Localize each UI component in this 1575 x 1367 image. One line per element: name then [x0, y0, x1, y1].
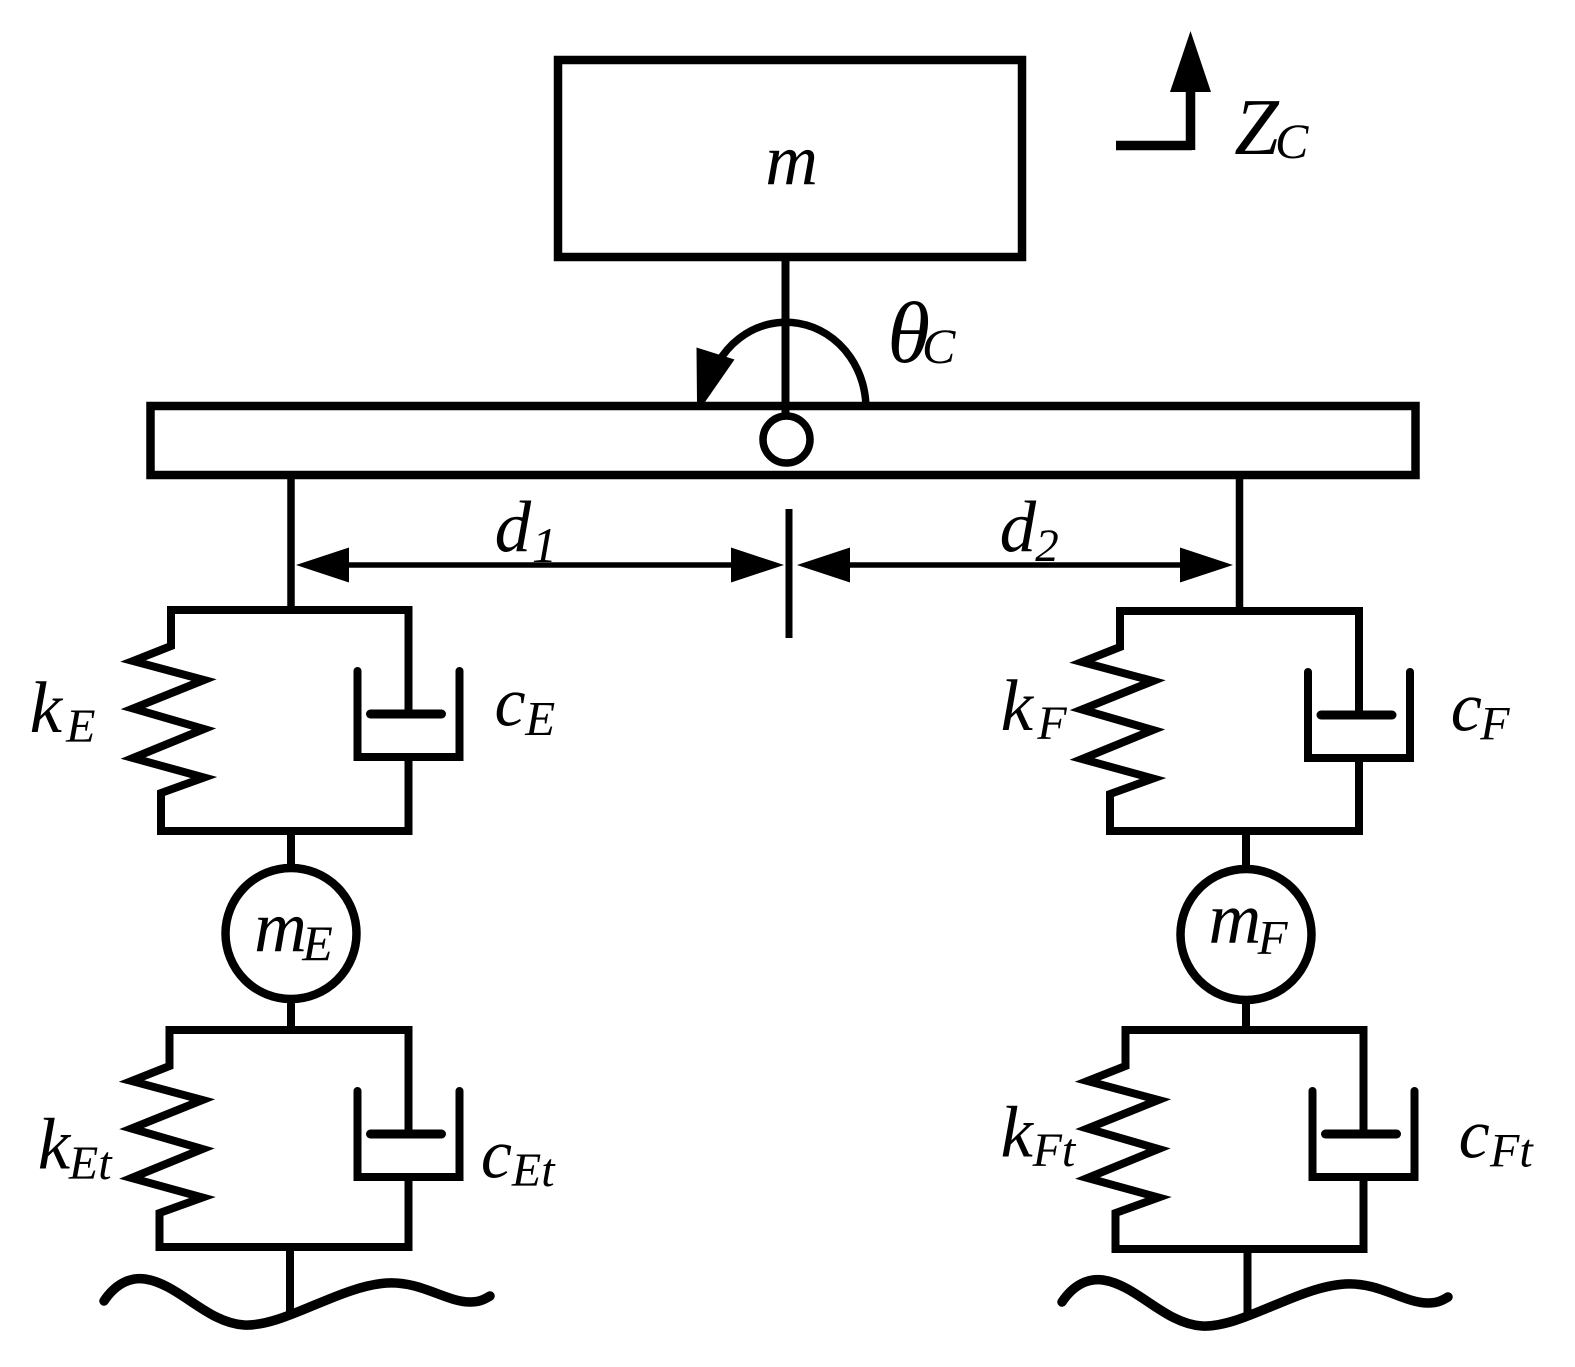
left hanger — [287, 475, 295, 610]
svg-text:Et: Et — [68, 1137, 113, 1190]
svg-text:d: d — [495, 487, 532, 568]
top bar kEt-cEt — [166, 1026, 413, 1034]
svg-text:c: c — [495, 665, 526, 742]
mass mE — [226, 868, 357, 999]
spring kE-cE — [133, 610, 204, 831]
center tick — [786, 509, 793, 638]
svg-text:Et: Et — [511, 1144, 556, 1197]
rod to mF — [1242, 831, 1250, 873]
svg-text:F: F — [1479, 698, 1510, 751]
svg-text:F: F — [1257, 910, 1289, 965]
damper cylinder kE-cE — [358, 671, 460, 757]
rod mass-beam — [782, 257, 790, 416]
rod to pivot — [782, 406, 790, 416]
rod to mE — [287, 831, 295, 872]
damper lower rod kF-cF — [1355, 758, 1363, 831]
svg-text:k: k — [1001, 1092, 1035, 1173]
svg-text:E: E — [524, 691, 555, 746]
damper rod kFt-cFt — [1360, 1030, 1368, 1136]
bottom bar kEt-cEt — [156, 1243, 413, 1251]
damper piston kEt-cEt — [371, 1130, 442, 1139]
svg-text:d: d — [1000, 487, 1037, 568]
beam — [151, 406, 1416, 475]
bottom bar kF-cF — [1106, 827, 1363, 835]
svg-text:Ft: Ft — [1489, 1125, 1534, 1178]
damper rod kF-cF — [1355, 611, 1363, 717]
svg-text:F: F — [1036, 697, 1067, 750]
pivot — [763, 416, 810, 463]
svg-text:c: c — [481, 1116, 512, 1193]
damper piston kE-cE — [371, 710, 442, 719]
svg-text:m: m — [765, 119, 818, 200]
damper lower rod kEt-cEt — [405, 1177, 413, 1247]
damper rod kEt-cEt — [405, 1030, 413, 1136]
bottom bar kFt-cFt — [1112, 1245, 1368, 1253]
damper cylinder kF-cF — [1308, 672, 1410, 758]
svg-text:1: 1 — [532, 517, 557, 573]
damper piston kFt-cFt — [1326, 1130, 1397, 1139]
svg-text:Z: Z — [1234, 84, 1280, 172]
svg-text:C: C — [922, 318, 956, 374]
svg-text:m: m — [254, 887, 307, 968]
d1 arrow — [340, 562, 740, 568]
spring kF-cF — [1082, 611, 1153, 831]
d2 arrow — [845, 562, 1190, 568]
top bar kE-cE — [167, 606, 413, 614]
damper lower rod kFt-cFt — [1360, 1177, 1368, 1249]
rod to road left — [286, 1247, 294, 1317]
svg-text:Ft: Ft — [1032, 1124, 1077, 1177]
road surface right — [1062, 1280, 1448, 1326]
damper lower rod kE-cE — [405, 757, 413, 831]
bottom bar kE-cE — [157, 827, 413, 835]
svg-text:2: 2 — [1035, 520, 1059, 572]
damper piston kF-cF — [1321, 711, 1392, 720]
svg-text:c: c — [1459, 1097, 1490, 1174]
spring kFt-cFt — [1088, 1030, 1159, 1249]
rod below mF — [1242, 998, 1250, 1030]
rod to road right — [1244, 1249, 1252, 1319]
damper cylinder kFt-cFt — [1313, 1091, 1415, 1177]
top bar kFt-cFt — [1122, 1026, 1368, 1034]
svg-text:E: E — [301, 915, 333, 971]
top bar kF-cF — [1116, 607, 1363, 615]
damper cylinder kEt-cEt — [358, 1091, 460, 1177]
svg-text:k: k — [30, 667, 64, 748]
svg-text:k: k — [38, 1104, 72, 1185]
rotation arc thetaC — [707, 322, 866, 420]
svg-text:k: k — [1001, 665, 1035, 746]
rod below mE — [287, 997, 295, 1030]
road surface left — [104, 1279, 490, 1325]
svg-text:m: m — [1209, 878, 1262, 959]
svg-text:C: C — [1275, 113, 1309, 169]
damper rod kE-cE — [405, 610, 413, 716]
spring kEt-cEt — [132, 1030, 203, 1247]
rotation arrowhead — [697, 348, 735, 403]
svg-text:c: c — [1451, 670, 1482, 747]
svg-text:E: E — [65, 700, 95, 753]
mass mF — [1181, 869, 1312, 1000]
Zc axis arrow — [1116, 88, 1192, 150]
right hanger — [1236, 475, 1244, 611]
mass block m — [558, 60, 1022, 257]
